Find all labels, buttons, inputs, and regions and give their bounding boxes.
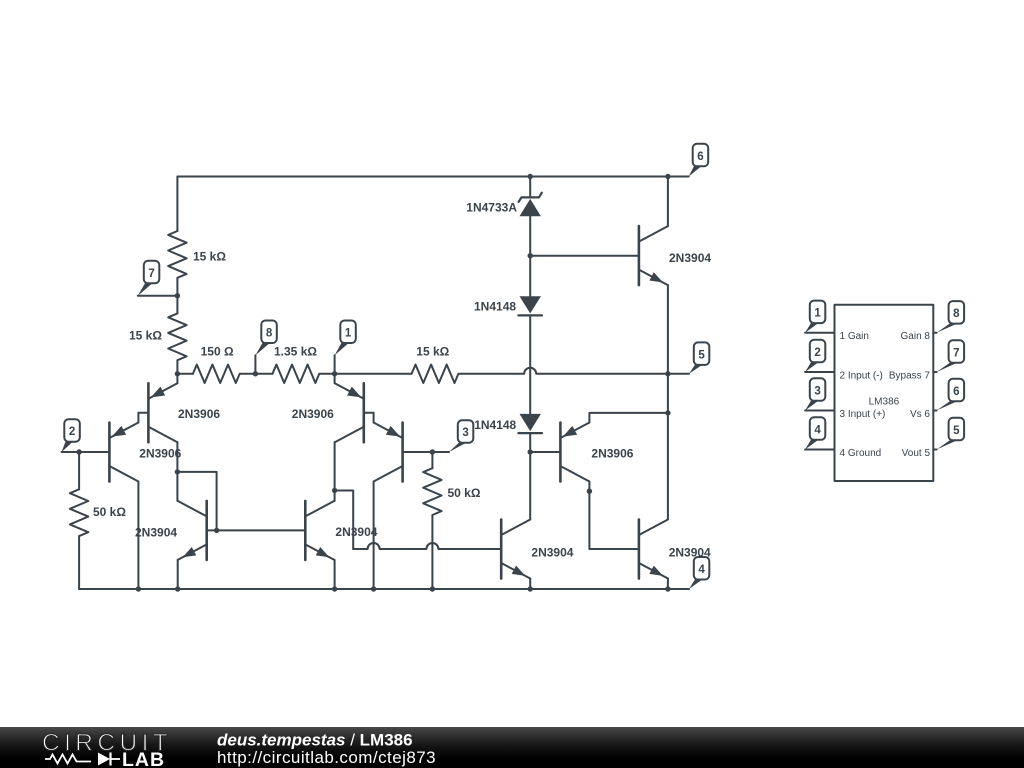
svg-text:Vs 6: Vs 6 (910, 409, 930, 420)
transistor Q7 2N3904 bottom center (500, 520, 503, 579)
transistor Q4 2N3904 mirror right (304, 501, 307, 560)
svg-text:1: 1 (345, 328, 352, 340)
svg-text:4: 4 (698, 564, 705, 576)
wire bottom base with hops (353, 543, 501, 549)
wire node 7 stub (138, 295, 178, 297)
wire Q3 emitter to rail (177, 560, 179, 589)
svg-text:2N3904: 2N3904 (335, 525, 377, 539)
svg-text:50 kΩ: 50 kΩ (448, 486, 481, 500)
wire Q4 collector up (334, 442, 336, 501)
junction Q9 collector (587, 489, 592, 494)
resistor R3 150 ohm (193, 365, 240, 383)
transistor Q3 2N3904 mirror left (205, 501, 208, 560)
svg-text:2N3906: 2N3906 (591, 447, 633, 461)
pin flag 4 (805, 440, 818, 450)
junction Q6 collector rail (371, 586, 376, 591)
junction right rail emitter wire (665, 410, 670, 415)
wire R6 to ground rail (78, 536, 80, 589)
wire ground rail (79, 588, 689, 590)
svg-text:1N4733A: 1N4733A (466, 200, 517, 214)
pin 6 wire right (933, 410, 936, 412)
pin flag 2 (805, 362, 818, 372)
flag node 7 (138, 283, 153, 296)
junction R7 rail (430, 586, 435, 591)
pin flag 3 (805, 401, 818, 411)
wire Q9 emitter up and right (589, 413, 668, 423)
wire right rail row to emitter wire (667, 374, 669, 413)
junction top rail x diode chain (528, 174, 533, 179)
svg-text:1: 1 (814, 308, 821, 320)
wire node2 to Q2 base (62, 451, 110, 453)
wire base of Q9 mid PNP (530, 451, 560, 453)
svg-text:2N3904: 2N3904 (135, 525, 177, 539)
wire Q5 base link (364, 413, 374, 423)
pin 3 wire left (805, 410, 834, 412)
svg-text:2: 2 (814, 347, 820, 359)
wire D3 to junction (529, 433, 531, 452)
svg-text:150 Ω: 150 Ω (201, 345, 234, 359)
footer bar (0, 727, 1024, 768)
junction darlington collector right (332, 488, 337, 493)
resistor R7 50k right (423, 468, 441, 515)
wire base of Q8 top (530, 255, 639, 257)
svg-text:LM386: LM386 (869, 397, 900, 408)
resistor R1 15k vertical (168, 231, 186, 278)
wire Q6 collector down (373, 482, 375, 590)
flag node 3 (449, 443, 466, 452)
svg-text:5: 5 (698, 349, 705, 361)
svg-text:2 Input (-): 2 Input (-) (840, 370, 883, 381)
wire R2 to row (176, 360, 178, 373)
svg-text:Vout 5: Vout 5 (902, 448, 931, 459)
junction top rail right (665, 174, 670, 179)
wire Q9 collector down (589, 482, 639, 550)
resistor R5 15k horizontal (412, 365, 459, 383)
svg-text:2N3906: 2N3906 (178, 407, 220, 421)
svg-text:1 Gain: 1 Gain (840, 331, 869, 342)
wire Q8 emitter down right rail (667, 285, 669, 374)
svg-text:5: 5 (953, 425, 960, 437)
junction node 7 (175, 293, 180, 298)
svg-text:1.35 kΩ: 1.35 kΩ (274, 344, 317, 358)
wire Q1 collector down (176, 442, 178, 501)
wire mirror tie (177, 472, 216, 531)
transistor Q8 2N3904 top (638, 226, 641, 285)
wire node2 to R6 (78, 452, 80, 489)
svg-text:15 kΩ: 15 kΩ (416, 344, 449, 358)
svg-text:3: 3 (462, 427, 468, 439)
svg-text:2N3904: 2N3904 (531, 545, 573, 559)
pin flag 7 (937, 363, 958, 372)
junction Q11 emitter rail (665, 586, 670, 591)
diode D3 1N4148 (520, 414, 541, 431)
pin flag 8 (937, 324, 958, 333)
junction Q3 emitter rail (175, 586, 180, 591)
pin 1 wire left (805, 332, 834, 334)
transistor Q2 2N3906 lower left (108, 423, 111, 482)
logo diode symbol (98, 753, 110, 766)
wire Q11 emitter to rail (667, 579, 669, 590)
pin flag 5 (937, 440, 958, 449)
svg-text:1N4148: 1N4148 (474, 418, 516, 432)
junction diode bottom (528, 449, 533, 454)
svg-text:6: 6 (697, 151, 703, 163)
svg-text:7: 7 (953, 347, 959, 359)
wire node1 to R5 (335, 373, 412, 375)
svg-text:4 Ground: 4 Ground (840, 448, 882, 459)
svg-text:4: 4 (814, 424, 821, 436)
flag node 1 (334, 355, 336, 373)
transistor Q6 2N3906 lower right (401, 423, 404, 482)
svg-text:6: 6 (953, 386, 959, 398)
wire D2 to D3 (529, 315, 531, 414)
flag node 8 (254, 355, 256, 373)
flag node 4 (689, 579, 702, 589)
wire top rail to zener (529, 177, 531, 198)
svg-text:8: 8 (953, 308, 960, 320)
wire R5 to right rail with hop (459, 368, 689, 374)
flag node 6 (689, 166, 702, 176)
svg-text:2N3904: 2N3904 (669, 251, 711, 265)
svg-text:8: 8 (266, 328, 273, 340)
junction row left (175, 371, 180, 376)
wire Q4 emitter to rail (334, 560, 336, 589)
zener diode D1 1N4733A (519, 193, 542, 202)
wire Q2 collector down (137, 482, 139, 590)
wire junction to D2 (529, 256, 531, 297)
pin 4 wire left (805, 449, 834, 451)
flag node 5 (689, 365, 702, 374)
wire Q1 emitter stub (176, 374, 178, 384)
svg-text:1N4148: 1N4148 (474, 299, 516, 313)
svg-text:50 kΩ: 50 kΩ (93, 505, 126, 519)
transistor Q5 2N3906 upper right (362, 383, 365, 442)
junction node 3 (430, 449, 435, 454)
pin 2 wire left (805, 371, 834, 373)
svg-text:Bypass 7: Bypass 7 (889, 370, 931, 381)
wire left chain upper segment (176, 177, 178, 232)
wire Q8 collector to top rail (667, 177, 669, 227)
svg-text:7: 7 (148, 268, 154, 280)
flag node 2 (62, 442, 73, 452)
resistor R6 50k left (70, 489, 88, 536)
svg-text:2: 2 (69, 426, 75, 438)
svg-text:3 Input (+): 3 Input (+) (840, 409, 886, 420)
svg-text:Gain 8: Gain 8 (901, 331, 931, 342)
transistor Q1 2N3906 upper left (147, 383, 150, 442)
junction node 2 (76, 449, 81, 454)
diode D2 1N4148 (520, 296, 541, 313)
wire Q5 emitter stub (334, 374, 336, 384)
junction Q4 emitter rail (332, 586, 337, 591)
wire Q1 base link (138, 413, 148, 423)
pin 5 wire right (933, 449, 936, 451)
pin flag 1 (805, 323, 818, 333)
wire 1.35k to node1 (320, 373, 335, 375)
transistor Q11 2N3904 output (638, 520, 641, 579)
op-amp U1 LM386 body (835, 305, 934, 481)
svg-text:2N3906: 2N3906 (139, 446, 181, 460)
pin flag 6 (937, 401, 958, 410)
wire R7 to rail (431, 515, 433, 589)
svg-text:3: 3 (814, 385, 820, 397)
wire Q7 collector up (529, 452, 531, 520)
svg-text:2N3906: 2N3906 (292, 407, 334, 421)
wire right rail to Q11 collector (667, 413, 669, 520)
svg-text:15 kΩ: 15 kΩ (129, 329, 162, 343)
junction zener-diode (528, 253, 533, 258)
junction node 5 (665, 371, 670, 376)
wire zener to junction (529, 216, 531, 256)
wire top rail (177, 176, 688, 178)
junction mirror base tie (214, 528, 219, 533)
resistor R2 15k vertical (168, 313, 186, 360)
junction node 1 (332, 371, 337, 376)
transistor Q9 2N3906 mid right (559, 423, 562, 482)
svg-text:LAB: LAB (122, 749, 165, 768)
wire Q6 base to node3 (403, 451, 449, 453)
wire jumper collector to base row (335, 491, 354, 550)
pin 8 wire right (933, 332, 936, 334)
wire mirror base (207, 529, 306, 531)
pin 7 wire right (933, 371, 936, 373)
svg-text:15 kΩ: 15 kΩ (193, 250, 226, 264)
junction mirror left collector (175, 469, 180, 474)
svg-text:http://circuitlab.com/ctej873: http://circuitlab.com/ctej873 (217, 748, 436, 767)
svg-text:deus.tempestas / LM386: deus.tempestas / LM386 (217, 731, 413, 750)
wire 150 to node8 (240, 373, 273, 375)
wire between R1 and R2 (176, 278, 178, 313)
wire Q7 emitter to rail (529, 579, 531, 590)
logo resistor zigzag (45, 755, 91, 764)
wire node3 to R7 (431, 452, 433, 468)
junction node 8 (253, 371, 258, 376)
junction Q2 collector rail (136, 586, 141, 591)
wire row left to 150 (177, 373, 193, 375)
resistor R4 1.35k (273, 365, 320, 383)
junction Q7 emitter rail (528, 586, 533, 591)
